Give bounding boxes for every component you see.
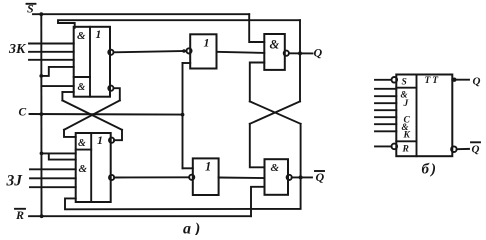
wire J1 stub — [375, 88, 396, 90]
wire C stub — [375, 109, 396, 111]
wire W1 stub into block1 — [62, 91, 73, 93]
gate block2 AND-OR-NOT — [76, 133, 111, 202]
gate D2 OR-NOT bottom — [193, 158, 219, 195]
wire down to A2 input — [250, 124, 265, 168]
svg-text:1: 1 — [96, 29, 102, 41]
node S junction dot — [39, 12, 43, 16]
gate A1 NAND top — [264, 34, 285, 70]
symbol S divider — [396, 87, 416, 89]
svg-text:TT: TT — [425, 76, 441, 86]
wire R stub — [375, 145, 392, 147]
pin block2 output bubble mid — [109, 175, 114, 180]
svg-text:&: & — [78, 138, 86, 149]
svg-text:Q: Q — [316, 170, 325, 184]
wire block2 out to gate D2 — [114, 176, 189, 178]
label Qbar — [316, 170, 325, 184]
wire W2 from block1 lower output — [114, 88, 120, 100]
wire block1 out to gate D1 — [114, 51, 187, 52]
svg-text:б): б) — [422, 162, 438, 178]
wire W1 right vertical down — [114, 130, 122, 140]
label Q symbol — [473, 76, 481, 88]
wire W2 diagonal — [64, 100, 120, 129]
wire bus step to block1 input — [41, 67, 73, 76]
svg-text:&: & — [270, 38, 280, 52]
pin A1 output bubble — [284, 51, 289, 56]
pin D2 input bubble — [189, 175, 194, 180]
gate block1 AND-OR-NOT — [74, 27, 110, 97]
node C bus dot — [40, 112, 44, 116]
node dot at D1 input — [182, 49, 186, 53]
svg-text:а): а) — [183, 221, 204, 236]
node R bus dot — [40, 214, 44, 218]
wire Qbar output of symbol — [457, 148, 469, 150]
svg-text:1: 1 — [97, 133, 103, 147]
pin block1 output bubble lower — [108, 86, 113, 91]
wire S stub — [375, 79, 392, 81]
wire K2 stub — [375, 123, 396, 125]
wire J2 stub — [375, 95, 396, 97]
svg-text:K: K — [403, 131, 411, 141]
wire W2 into block2 — [64, 130, 76, 137]
wire W1 diagonal — [62, 100, 122, 129]
svg-text:&: & — [401, 90, 408, 100]
svg-text:S: S — [402, 78, 407, 88]
node bus dot lower — [40, 152, 44, 156]
node Q output dot — [452, 78, 456, 82]
wire A1 output to Q — [289, 52, 313, 54]
svg-text:&: & — [271, 162, 280, 174]
wire 3J input 2 — [30, 177, 76, 179]
wire C line — [30, 113, 183, 116]
wire R up to gate A2 — [251, 187, 265, 216]
wire step to block2 second input — [49, 153, 76, 159]
wire Q feedback top — [58, 20, 300, 28]
svg-text:3K: 3K — [8, 42, 27, 57]
wire cross diagonal Q to A2 — [250, 101, 300, 123]
overline of R — [15, 208, 25, 210]
svg-text:Q: Q — [314, 46, 323, 60]
wire Qbar feedback bottom — [65, 177, 301, 209]
overline of Qbar — [315, 170, 324, 172]
wire K1 stub — [375, 116, 396, 118]
wire 3J input 3 — [30, 186, 76, 188]
svg-text:&: & — [77, 30, 86, 42]
wire C vertical branch — [182, 63, 184, 168]
wire D1 output — [217, 52, 265, 53]
label 3J — [6, 173, 24, 190]
overline of S — [27, 3, 36, 5]
wire 3J input 1 — [30, 168, 76, 170]
symbol divider column — [416, 75, 418, 157]
wire C to gate D2 upper input — [183, 167, 193, 169]
svg-text:J: J — [403, 99, 409, 109]
svg-text:Q: Q — [472, 144, 480, 156]
node bus dot upper — [39, 74, 43, 78]
wire bus to block2 input straight — [42, 152, 76, 154]
node Qbar dot — [299, 175, 303, 179]
svg-text:&: & — [78, 82, 86, 93]
wire 3K input 3 — [29, 59, 74, 61]
wire W1 left vertical — [61, 92, 63, 100]
node C right dot — [181, 113, 185, 117]
svg-text:&: & — [79, 163, 88, 175]
symbol TT outer box — [396, 75, 452, 157]
label R-bar — [15, 208, 24, 222]
label C — [19, 107, 27, 119]
svg-text:R: R — [402, 145, 409, 155]
label Qbar symbol — [472, 144, 480, 156]
wire 3K input 1 — [29, 43, 74, 45]
label Q — [314, 46, 323, 60]
wire A2 output to Qbar — [292, 176, 312, 178]
wire Q up to feedback — [299, 20, 301, 53]
wire D2 output — [219, 177, 265, 180]
label b) — [422, 162, 438, 178]
wire Q down cross — [299, 53, 301, 101]
label S-bar — [27, 2, 34, 16]
label 3K — [8, 42, 27, 57]
svg-text:Q: Q — [473, 76, 481, 88]
wire A1 cross input — [250, 63, 264, 102]
pin R input bubble — [392, 144, 398, 150]
wire J3 stub — [375, 102, 396, 104]
pin S input bubble — [392, 77, 398, 83]
wire cross diagonal Qbar to A1 — [250, 101, 301, 123]
gate D1 OR-NOT top — [190, 34, 216, 68]
wire R line — [29, 215, 251, 217]
wire Qbar vertical — [300, 124, 302, 178]
node Q dot — [298, 51, 302, 55]
wire K3 stub — [375, 130, 396, 132]
wire 3K input 2 — [29, 51, 74, 53]
wire Q output of symbol — [452, 79, 469, 81]
svg-text:R: R — [15, 208, 24, 222]
wire C to gate D1 lower input — [183, 62, 191, 64]
pin A2 output bubble — [287, 175, 292, 180]
pin D1 input bubble — [186, 48, 191, 53]
pin block1 output bubble mid — [108, 50, 113, 55]
svg-text:1: 1 — [204, 36, 210, 50]
pin block2 output bubble upper — [109, 138, 114, 143]
gate A2 NAND bottom — [265, 159, 289, 195]
symbol R divider — [396, 140, 416, 142]
pin Qbar output bubble — [451, 146, 457, 152]
wire bus to block1 lower input — [41, 85, 73, 87]
svg-text:3J: 3J — [6, 173, 24, 190]
label a) — [183, 221, 204, 238]
wire S top line — [33, 13, 249, 15]
svg-text:C: C — [19, 107, 27, 119]
wire S down right side — [249, 14, 264, 42]
wire vertical bus — [40, 14, 42, 216]
overline of Qbar symbol — [471, 141, 480, 143]
svg-text:1: 1 — [205, 160, 211, 174]
